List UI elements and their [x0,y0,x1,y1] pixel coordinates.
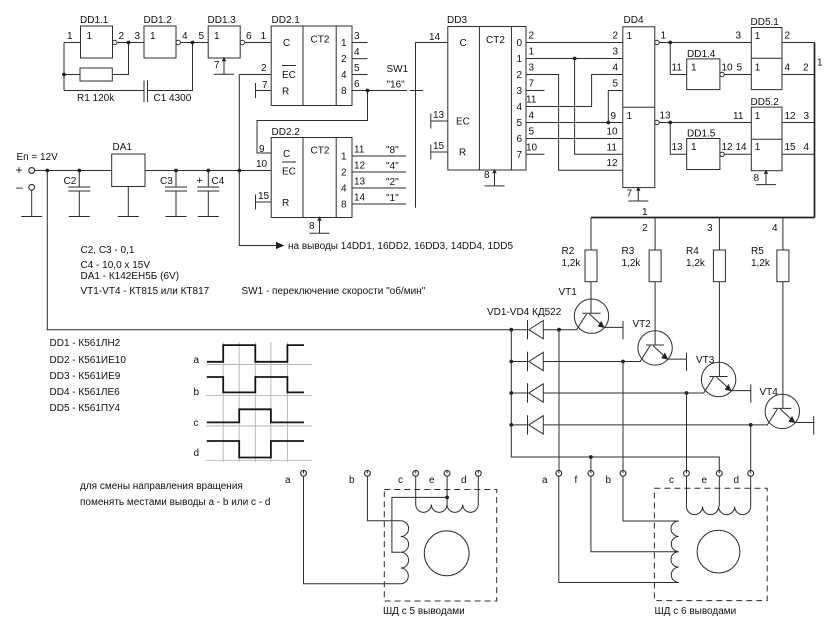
svg-text:4: 4 [772,223,778,234]
resistor R3 [649,250,661,282]
svg-text:1: 1 [341,152,347,163]
svg-text:5: 5 [517,118,523,129]
svg-text:R5: R5 [751,246,764,257]
wire +5V branch down to arrow [239,171,276,246]
terminal plus [29,168,35,174]
diode VD1 [511,320,577,339]
svg-text:15: 15 [258,191,270,202]
wire DA1 out rail [145,170,271,172]
svg-text:1: 1 [67,31,73,42]
svg-text:7: 7 [529,79,535,90]
transistor VT3 [696,282,751,403]
pin 15 tick DD3 [431,145,448,160]
wire DD1.4 out to DD5.1 [724,74,751,76]
pin 15 tick DD2.2 [256,195,272,210]
node phase c drop [685,391,689,395]
ground DD2.2 [310,218,330,234]
wire out5 to DD4 pin5 [608,91,623,123]
svg-text:7: 7 [517,150,523,161]
svg-text:13: 13 [660,111,672,122]
svg-text:4: 4 [182,31,188,42]
svg-text:4: 4 [613,63,619,74]
wire bus bottom horizontal [591,217,815,219]
winding a-b motor2 [671,521,679,583]
svg-text:d: d [461,475,467,486]
wire R1 right to node [112,43,128,75]
svg-text:10: 10 [722,63,734,74]
switch SW1 contact [410,90,423,92]
node VD1 bus [509,328,513,332]
node VD4 bus [509,423,513,427]
svg-text:"1": "1" [386,193,399,204]
wire diode bus vertical [511,330,719,471]
svg-text:DD5 - К561ПУ4: DD5 - К561ПУ4 [50,403,121,414]
svg-text:1: 1 [817,58,823,69]
svg-text:EC: EC [282,70,296,81]
ground minus terminal [21,190,42,216]
svg-text:5: 5 [613,79,619,90]
svg-text:3: 3 [517,86,523,97]
pin 7 arrow DD4 [636,186,640,190]
waveform axis c [206,425,312,427]
svg-text:4: 4 [341,184,347,195]
node phase a drop [557,328,561,332]
svg-text:DD2.1: DD2.1 [272,15,301,26]
svg-text:7: 7 [627,189,633,200]
svg-text:14: 14 [736,142,748,153]
winding c-d motor2 [687,507,751,515]
NOR gate DD4 (two sections) [623,15,655,188]
svg-text:2: 2 [613,31,619,42]
winding a-b motor1 [401,521,409,584]
svg-text:12: 12 [722,142,734,153]
waveform trace b [207,377,304,392]
wire conductor 2 to R3 [654,218,656,251]
svg-text:C: C [283,149,290,160]
svg-text:4: 4 [341,70,347,81]
svg-text:10: 10 [256,159,268,170]
svg-text:3: 3 [804,111,810,122]
terminal a motor2 [542,470,562,486]
svg-text:VD1-VD4 КД522: VD1-VD4 КД522 [487,307,562,318]
svg-text:DD1.5: DD1.5 [687,129,716,140]
wire +5V branch up to DD2.1 EC [238,75,240,171]
svg-text:2: 2 [341,168,347,179]
node plus junction [45,169,49,173]
svg-text:+: + [197,175,203,187]
terminal c motor2 [669,470,689,486]
wire d motor2 down [750,476,752,506]
waveform axis b [206,394,312,396]
svg-text:"4": "4" [386,161,399,172]
wire DD3 out0 to DD4 pin2 [526,42,623,44]
svg-text:SW1: SW1 [387,64,409,75]
svg-text:11: 11 [354,145,365,156]
wire e tap to winding a-b center [392,497,447,552]
node DD2.1 out8 [366,89,370,93]
svg-text:8: 8 [341,86,347,97]
wire DD3 out7 stub [526,153,545,155]
svg-text:5: 5 [529,127,535,138]
wire DD3 out5 to DD4 pin9 [526,122,623,124]
svg-text:a: a [542,475,548,486]
wire DD2.1 EC from +5 [239,74,271,76]
wire +12V left rail down [47,171,511,330]
waveform trace d [207,441,304,458]
svg-text:поменять местами выводы a - b: поменять местами выводы a - b или c - d [80,497,271,508]
node VD2 bus [509,360,513,364]
transistor VT4 [760,282,814,435]
svg-text:1: 1 [529,47,535,58]
svg-text:DD5.1: DD5.1 [751,17,780,28]
wire DD1.5 out to DD5.2 [724,153,751,155]
svg-text:8: 8 [341,200,347,211]
svg-text:b: b [606,475,612,486]
terminal minus [29,184,35,190]
svg-text:b: b [349,475,355,486]
counter DD2.1 [271,15,352,106]
wire conductor 1 to R2 [590,218,592,251]
wire DD3 out4 to DD4 pin4 [526,75,623,107]
svg-text:10: 10 [607,127,619,138]
svg-text:DD5.2: DD5.2 [751,97,780,108]
bubble DD4.2 output [655,120,659,124]
svg-text:DD1.3: DD1.3 [208,15,237,26]
svg-text:3: 3 [529,63,535,74]
waveform trace c [207,409,304,422]
svg-text:VT2: VT2 [633,319,652,330]
motor2 rotor [697,530,740,573]
svg-text:4: 4 [529,111,535,122]
svg-text:1,2k: 1,2k [622,258,642,269]
wire bus right vertical [814,43,816,218]
svg-text:8: 8 [309,221,315,232]
svg-text:1: 1 [627,31,633,42]
diode VD3 [511,383,704,402]
svg-text:EC: EC [282,167,296,178]
wire DD2.1 out1 [352,42,368,44]
svg-text:d: d [194,448,200,459]
counter DD2.2 [271,127,352,218]
svg-text:DD2 - К561ИЕ10: DD2 - К561ИЕ10 [50,355,127,366]
svg-text:EC: EC [456,117,470,128]
svg-text:"8": "8" [386,145,399,156]
wire a motor1 down [304,476,401,584]
svg-text:Eп = 12V: Eп = 12V [17,152,59,163]
pin 8 arrow DD5.2 [764,170,768,174]
wire b motor1 down [367,476,400,521]
svg-text:13: 13 [672,142,684,153]
wire DD2.1 out8 to SW1 [352,90,407,92]
wire DD4.2 out down to DD1.5 [670,123,686,155]
svg-text:1: 1 [87,31,93,42]
svg-text:10: 10 [526,143,538,154]
svg-text:DD1 - К561ЛН2: DD1 - К561ЛН2 [50,338,121,349]
wire DD3 out1 to DD4 pin3 [526,58,623,60]
svg-text:1: 1 [341,38,347,49]
svg-text:DD4 - К561ЛЕ6: DD4 - К561ЛЕ6 [50,387,121,398]
svg-text:4: 4 [354,47,360,58]
wire phase d to motor2 [750,425,752,470]
wire DD5.1 out4 to bus [782,74,815,76]
svg-text:R: R [282,87,289,98]
svg-text:C: C [460,38,467,49]
pin 7 tick DD2.1 [256,83,272,98]
svg-text:R1 120k: R1 120k [77,93,115,104]
svg-text:15: 15 [785,142,797,153]
svg-text:+: + [16,163,23,177]
wire f motor2 down [591,476,679,552]
resistor R2 [585,250,597,282]
svg-text:3: 3 [707,223,713,234]
node e motor1 [445,496,449,500]
svg-text:ШД с 6 выводами: ШД с 6 выводами [655,606,737,617]
inverter DD1.1 [80,15,117,58]
wire DD3 out3 stub [526,90,545,92]
wire DD2.2 out1 tap "8" [352,155,406,157]
wire c motor1 down [415,476,417,504]
resistor R5 [777,250,789,282]
terminal d motor1 [461,470,481,486]
svg-text:1: 1 [755,63,761,74]
wire DD1.2 out to DD1.3 [180,42,208,44]
wire DD1.1 out to DD1.2 [117,42,144,44]
svg-text:c: c [669,475,674,486]
svg-text:13: 13 [433,110,445,121]
svg-text:C4 - 10,0 x 15V: C4 - 10,0 x 15V [81,260,151,271]
svg-text:2: 2 [119,31,125,42]
svg-text:5: 5 [737,63,743,74]
svg-text:C3: C3 [160,176,173,187]
svg-text:ШД с 5 выводами: ШД с 5 выводами [383,606,465,617]
svg-text:2: 2 [785,31,791,42]
node +5V branch [237,169,241,173]
terminal e motor2 [702,470,723,486]
svg-text:1: 1 [642,207,648,218]
svg-text:12: 12 [607,158,619,169]
svg-text:DA1: DA1 [113,142,133,153]
svg-text:5: 5 [354,63,360,74]
terminal c motor1 [398,470,419,486]
svg-text:e: e [429,475,435,486]
terminal b motor2 [606,470,626,486]
svg-text:1: 1 [755,111,761,122]
wire DD4.2 out [659,122,751,124]
pin 7 arrow DD1.3 [222,57,226,61]
svg-text:C1 4300: C1 4300 [154,93,192,104]
svg-text:DD2.2: DD2.2 [272,127,301,138]
svg-text:R: R [282,198,289,209]
svg-text:13: 13 [354,177,366,188]
svg-text:1,2k: 1,2k [751,258,771,269]
node DD4.2 out [668,121,672,125]
svg-text:1: 1 [627,111,633,122]
node VD3 bus [509,391,513,395]
svg-text:11: 11 [672,63,683,74]
capacitor C2 [64,171,91,217]
wire DD2.1 out4 [352,74,368,76]
wire a motor2 down [559,476,679,582]
node phase b drop [621,360,625,364]
svg-text:0: 0 [517,38,523,49]
svg-text:SW1 - переключение скорости "о: SW1 - переключение скорости "об/мин" [242,285,426,297]
wire DD4.1 out down to DD1.4 [670,43,686,75]
svg-text:на выводы 14DD1, 16DD2, 16DD3,: на выводы 14DD1, 16DD2, 16DD3, 14DD4, 1D… [288,241,513,252]
pin 8 arrow DD3 [492,169,496,173]
svg-text:1: 1 [691,142,697,153]
svg-text:1: 1 [755,31,761,42]
pin 13 tick DD3 [431,114,448,129]
wire conductor 4 to R5 [782,218,784,251]
svg-text:6: 6 [517,134,523,145]
regulator DA1 [112,142,145,217]
wire conductor 3 to R4 [718,218,720,251]
resistor R4 [713,250,725,282]
svg-text:11: 11 [733,111,744,122]
svg-text:1: 1 [261,31,267,42]
svg-text:CT2: CT2 [311,35,330,46]
svg-text:DD1.2: DD1.2 [144,15,173,26]
svg-text:6: 6 [354,79,360,90]
svg-text:5: 5 [199,31,205,42]
svg-text:1: 1 [755,142,761,153]
svg-text:14: 14 [429,32,441,43]
terminal d motor2 [734,470,754,486]
svg-text:7: 7 [262,80,268,91]
terminal a motor1 [285,470,306,486]
node f common [589,455,593,459]
wire DD3 out6 to DD4 pin10 [526,138,623,140]
buffer DD5.1 (two sections) [751,17,783,90]
wire SW1 common bus [416,43,448,208]
terminal f motor2 [575,470,594,486]
svg-text:11: 11 [607,143,618,154]
svg-text:f: f [575,475,578,486]
wire e motor1 center tap [446,476,448,504]
capacitor C3 [160,171,187,217]
svg-text:8: 8 [484,170,490,181]
node DD1.1 output [127,41,131,45]
waveform axis a [206,364,312,366]
svg-text:C2, C3 - 0,1: C2, C3 - 0,1 [81,245,135,256]
wire DD1.1 input [64,42,81,44]
svg-text:"16": "16" [387,80,406,91]
diode VD4 [511,415,768,434]
pin 8 arrow DD2.2 [317,216,321,220]
svg-text:R: R [459,148,466,159]
svg-text:a: a [194,355,200,366]
wire phase a to motor2 [558,330,560,471]
wire e motor2 center tap [718,476,720,506]
svg-text:2: 2 [642,223,648,234]
svg-text:3: 3 [354,31,360,42]
node DD4.1 out [668,41,672,45]
svg-text:4: 4 [785,63,791,74]
wire phase b to motor2 [622,362,624,471]
svg-text:1: 1 [150,31,156,42]
svg-text:2: 2 [517,70,523,81]
svg-text:a: a [285,475,291,486]
svg-text:DD4: DD4 [624,15,644,26]
wire DD4.1 out [659,42,751,44]
diode VD2 [511,352,641,371]
wire R1 left [64,74,80,76]
svg-text:c: c [194,418,199,429]
node C2 [77,169,81,173]
wire DD2.2 out4 tap "2" [352,187,406,189]
svg-text:2: 2 [261,63,267,74]
svg-text:8: 8 [754,173,760,184]
wire DD2.2 out2 tap "4" [352,171,406,173]
wire DD1.3 out to DD2.1 [245,42,272,44]
inverter DD1.2 [144,15,181,58]
wire C1 node up [148,43,193,91]
capacitor C1 [64,81,148,103]
svg-text:1: 1 [214,31,220,42]
ground DD1.3 [214,58,234,74]
node out5 branch [606,121,610,125]
wire c motor2 down [686,476,688,506]
svg-text:3: 3 [613,47,619,58]
svg-text:1,2k: 1,2k [686,258,706,269]
wire DD5.2 out15 to bus [782,153,815,155]
svg-text:DD1.1: DD1.1 [80,15,109,26]
svg-text:14: 14 [354,193,366,204]
waveform trace a [207,345,304,362]
bubble DD4.1 output [655,40,659,44]
resistor R1 [80,68,112,81]
wire phase c to motor2 [686,393,688,470]
svg-text:DD3: DD3 [447,15,467,26]
svg-text:2: 2 [529,31,535,42]
svg-text:9: 9 [259,144,265,155]
motor1 rotor [424,531,469,576]
wire DD5.2 out12 to bus [782,122,815,124]
svg-text:1,2k: 1,2k [562,258,582,269]
svg-text:–: – [16,180,23,194]
svg-text:4: 4 [804,142,810,153]
svg-text:11: 11 [526,95,537,106]
svg-text:3: 3 [736,31,742,42]
svg-text:DD1.4: DD1.4 [687,49,716,60]
svg-text:C2: C2 [64,176,77,187]
svg-text:1: 1 [691,63,697,74]
motor1 dashed box [384,490,496,602]
ground DD4 [628,188,648,201]
wire DD2.1 out8 down to DD2.2 C [257,91,368,154]
wire b motor2 down [623,476,679,521]
svg-text:12: 12 [785,111,797,122]
buffer DD5.2 (two sections) [751,97,783,171]
node DD1.2 output [191,41,195,45]
svg-text:VT1-VT4 - КТ815 или КТ817: VT1-VT4 - КТ815 или КТ817 [81,286,210,297]
svg-text:CT2: CT2 [486,35,505,46]
svg-text:2: 2 [341,54,347,65]
node R1 left junction [62,73,66,77]
ground DD5.2 [756,171,776,185]
svg-text:6: 6 [246,31,252,42]
svg-text:C: C [283,38,290,49]
wire plus to rail [35,170,112,172]
node C3 [174,169,178,173]
svg-text:12: 12 [354,161,366,172]
node C4 [206,169,210,173]
wire DD2.2 out8 tap "1" [352,203,406,205]
node out1 branch [573,57,577,61]
svg-text:VT1: VT1 [559,287,578,298]
winding c-d motor1 [416,505,479,513]
svg-text:1: 1 [661,31,667,42]
